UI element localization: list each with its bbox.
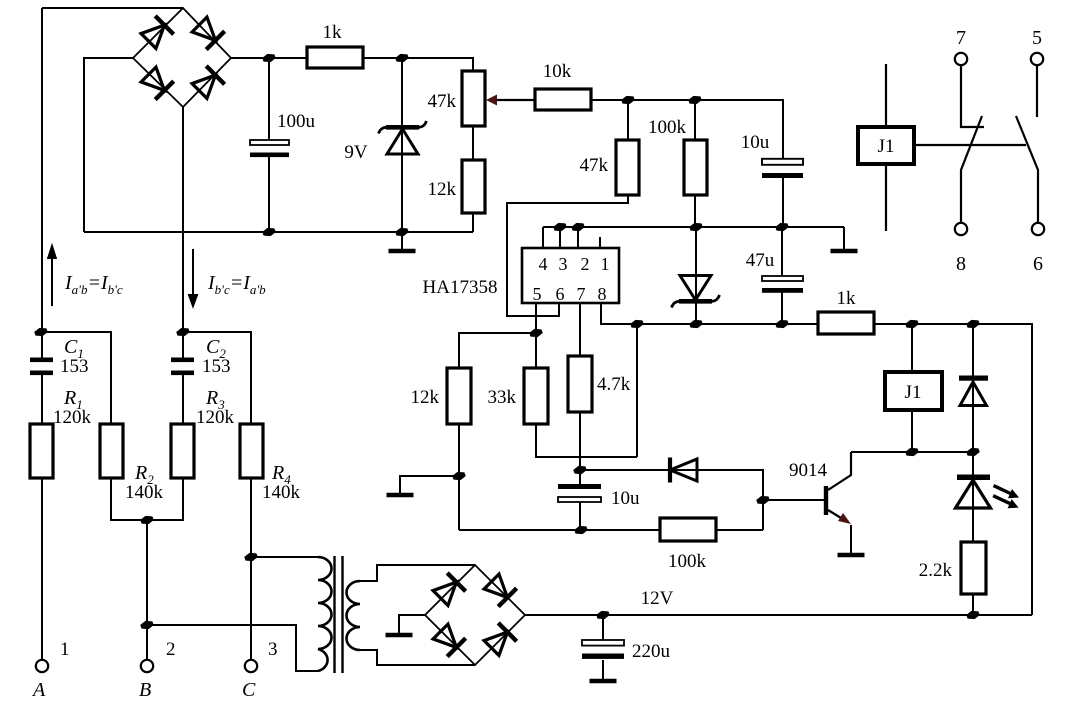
wire bridge left vertex to left drop [84,58,133,232]
capacitor 47u bottom plate [762,288,803,293]
svg-text:220u: 220u [632,641,671,662]
resistor R3 [171,424,194,478]
capacitor 47u branch [781,227,783,324]
svg-text:4: 4 [539,254,548,274]
wire 12k bottom [472,213,474,232]
svg-text:12k: 12k [411,387,440,408]
bridge rectifier B1 diamond [133,8,231,107]
svg-text:47k: 47k [580,155,609,176]
transformer T1 secondary winding [347,581,361,650]
svg-text:47u: 47u [746,250,775,271]
potentiometer 47k body [462,71,485,126]
wire bottom rail of top block [84,231,473,233]
LED arrow 1 [994,486,1011,494]
wire 4.7k bottom [579,412,581,470]
node zener2 bottom [689,320,703,328]
pin2 stub [577,227,579,248]
wire J1 actuator link [914,144,1026,146]
wire bridge bottom vertex down [182,107,184,332]
node junction left column [34,328,48,336]
wire node2 to primary bottom [147,625,318,671]
svg-text:120k: 120k [53,407,92,428]
wire bottom feedback rail [459,529,763,531]
resistor R2 [100,424,123,478]
svg-text:10u: 10u [741,132,770,153]
diode B2-D2 [482,572,516,606]
resistor 12k (mid) [447,368,471,424]
pin3 stub [559,227,561,248]
node transistor base tap [756,496,770,504]
wire 10u bottom stub [782,177,784,227]
svg-text:3: 3 [559,254,568,274]
transistor Q1 emitter arrow (maroon) [838,513,851,524]
node 47u bottom [775,320,789,328]
svg-text:9V: 9V [344,142,368,163]
node J1 bottom [905,448,919,456]
ground at emitter [838,554,865,556]
pin1 stub [599,237,601,248]
ground at bridge2 [386,634,413,636]
capacitor 10u (mid) top plate [558,484,601,489]
wire base [763,499,824,501]
wire bridge right vertex to 1k [231,57,307,59]
LED arrow 2 [993,496,1010,504]
node zener2 top [689,223,703,231]
svg-text:7: 7 [956,27,966,49]
zener 9V branch wire [401,58,403,232]
zener diode 9V bar [386,125,419,130]
wire R3 bottom to node [147,478,183,520]
wire secondary bottom to bridge2 bottom [360,650,475,665]
node 220u tap [596,611,610,619]
svg-text:100k: 100k [648,117,687,138]
resistor 47k (mid) [616,140,639,195]
svg-text:B: B [139,679,151,701]
wire 47k bottom to pin6 loop [507,195,628,316]
zener diode 9V triangle [387,129,418,154]
wire left vertical [41,8,43,332]
svg-text:140k: 140k [125,482,164,503]
LED bar [957,475,990,481]
svg-text:C: C [242,679,256,701]
wire node3 to primary top [251,556,318,558]
wire J1 coil bottom stub [911,410,913,452]
ground below 220u [590,680,617,682]
capacitor 100u top plate [250,140,289,145]
terminal 1 [36,660,48,672]
wire R1 to terminal 1 [41,478,43,660]
node junction mid column [176,328,190,336]
resistor R1 [30,424,53,478]
wire contact 7 fixed [961,65,984,127]
svg-text:140k: 140k [262,482,301,503]
terminal 2 [141,660,153,672]
wire pin7 stub [579,303,581,356]
node 2.2k bottom [966,611,980,619]
wire branch to R4 [183,332,251,424]
resistor 12k (top right) [462,160,485,213]
diode D4 bar [959,376,988,381]
wire J1 coil top stub [911,324,913,372]
svg-text:10k: 10k [543,61,572,82]
wire pin8 output rail [601,303,818,324]
svg-text:5: 5 [533,284,542,304]
wire R2 bottom to node [111,478,147,520]
resistor 100k (mid) [684,140,707,195]
capacitor C1 plates [30,358,53,363]
wire contact 5 fixed [1036,65,1038,117]
terminal 5 [1031,53,1043,65]
wire secondary top to bridge2 top [360,565,475,581]
op-amp U1 HA17358 box [522,248,619,303]
node J1 coil top [905,320,919,328]
wire 33k top stub [535,333,537,368]
svg-text:1k: 1k [323,22,343,43]
wire top horizontal [42,7,183,9]
resistor 1k (top) [307,47,363,68]
zener D2 bar [679,299,712,304]
node riser top [630,320,644,328]
capacitor 10u (mid) bottom plate [558,497,601,502]
wire pot to 12k [472,126,474,160]
transistor Q1 collector [828,452,851,490]
wire node to terminal 2 [146,520,148,660]
svg-text:A: A [31,679,46,701]
capacitor 220u wire [602,615,604,679]
transformer T1 core [335,556,343,673]
diode B1-D3 [139,65,173,99]
svg-text:J1: J1 [878,136,895,157]
zener D2 triangle [680,276,711,301]
wire diode row [580,470,763,530]
node pin5/33k [529,329,543,337]
contact arm 5-6 [1016,116,1038,222]
node diode row left [573,466,587,474]
diode B1-D1 [139,16,173,50]
contact arm 7-8 [961,116,982,222]
capacitor 100u branch wire [268,58,270,232]
resistor 100k (feedback) [660,518,716,541]
diode D4 (freewheel) wire [972,324,974,452]
arrow down current [189,249,197,306]
capacitor 10u (top) plates [762,159,803,165]
wire C1 column [41,332,43,424]
svg-text:12k: 12k [428,179,457,200]
node 47u top [775,223,789,231]
svg-text:100k: 100k [668,551,707,572]
terminal 3 [245,660,257,672]
arrow up current [48,246,56,306]
ground at 12k tap [387,494,414,496]
wire J1 top lead [885,64,887,127]
node pin2 [571,223,585,231]
junction dots top block [262,54,276,62]
svg-text:12V: 12V [641,588,674,609]
svg-text:1k: 1k [837,288,857,309]
bridge rectifier B2 diamond [425,565,525,665]
relay coil J1 (contact unit) box [858,127,914,164]
wire 12k bottom [458,424,460,530]
svg-text:33k: 33k [488,387,517,408]
capacitor 100u bottom plate [250,153,289,158]
wire C2 column [182,332,184,424]
wire 10k to cap 10u rail [591,100,783,160]
svg-text:3: 3 [268,639,278,660]
svg-text:47k: 47k [428,91,457,112]
svg-text:7: 7 [577,284,586,304]
capacitor 47u top plate [762,276,803,281]
svg-text:153: 153 [202,356,231,377]
svg-text:2.2k: 2.2k [919,560,953,581]
capacitor C2 plates [171,358,194,363]
wire 100k top stub [694,100,696,140]
resistor 4.7k [568,356,592,412]
wire mid rail y227 [543,227,844,248]
svg-text:5: 5 [1032,27,1042,49]
svg-text:120k: 120k [196,407,235,428]
diode B1-D2 [190,15,224,49]
svg-text:6: 6 [556,284,565,304]
relay coil J1 box [885,372,942,410]
svg-text:HA17358: HA17358 [423,277,498,298]
diode B2-D3 [431,622,465,656]
wire 100k bottom stub [694,195,696,227]
wire 12V rail [525,614,1032,616]
resistor R4 [240,424,263,478]
diode D4 triangle [960,382,987,406]
resistor 33k [524,368,548,424]
ground right of rail y227 [843,227,845,249]
svg-text:8: 8 [598,284,607,304]
ground below zener 9V [401,232,403,250]
transistor Q1 emitter [828,510,846,521]
capacitor 10u (mid) [579,470,581,530]
LED triangle [956,480,991,508]
diode B2-D4 [482,623,516,657]
zener diode D2 branch [695,227,697,324]
node tap for transformer primary bottom [140,621,154,629]
wire R4 bottom to terminal 3 [250,478,252,660]
wire ground tap [400,476,459,493]
diode D3 (pointing left) [670,458,697,483]
svg-text:1: 1 [601,254,610,274]
wire 47k top stub [627,100,629,140]
wire 1k to right edge [874,324,1032,615]
svg-text:J1: J1 [905,382,922,403]
wire collector rail [851,451,973,453]
wire feedback riser [636,324,638,457]
svg-text:2: 2 [166,639,176,660]
node ground tap [452,472,466,480]
resistor 2.2k [961,542,986,594]
node R2/R3 junction [140,516,154,524]
node 10u bottom [574,526,588,534]
svg-text:4.7k: 4.7k [597,374,631,395]
diode B1-D4 [190,66,224,100]
node 47k top [621,96,635,104]
wire wiper to 10k [497,99,535,101]
wire branch to R2 [42,332,111,424]
svg-text:10u: 10u [611,488,640,509]
terminal 7 [955,53,967,65]
wire emitter to ground [850,525,852,553]
node 100k top [688,96,702,104]
wire pin5 rail to 12k [459,333,536,368]
terminal 8 [955,223,967,235]
capacitor 220u bottom plate [582,654,624,659]
svg-text:100u: 100u [277,111,316,132]
wire pin5 stub [535,303,537,333]
resistor 10k [535,89,591,110]
node tap for transformer primary top [244,553,258,561]
node diode D4 top [966,320,980,328]
svg-text:1: 1 [60,639,70,660]
pot wiper arrow (maroon) [486,95,497,106]
wire J1 bottom lead [885,164,887,231]
diode B2-D1 [431,573,465,607]
svg-text:153: 153 [60,356,89,377]
capacitor 220u top plate [582,640,624,646]
svg-text:8: 8 [956,253,966,275]
transformer T1 primary winding [318,557,332,671]
transistor Q1 base bar [824,486,828,515]
svg-text:2: 2 [581,254,590,274]
wire 1k to pot column [363,58,473,71]
svg-text:9014: 9014 [789,460,828,481]
node LED top [966,448,980,456]
svg-text:6: 6 [1033,253,1043,275]
wire 33k bottom to feedback rail [536,424,637,457]
resistor 1k (output) [818,312,874,334]
LED wire [972,452,974,615]
node pin3 [553,223,567,231]
terminal 6 [1032,223,1044,235]
wire bridge2 left vertex to ground [399,615,425,633]
